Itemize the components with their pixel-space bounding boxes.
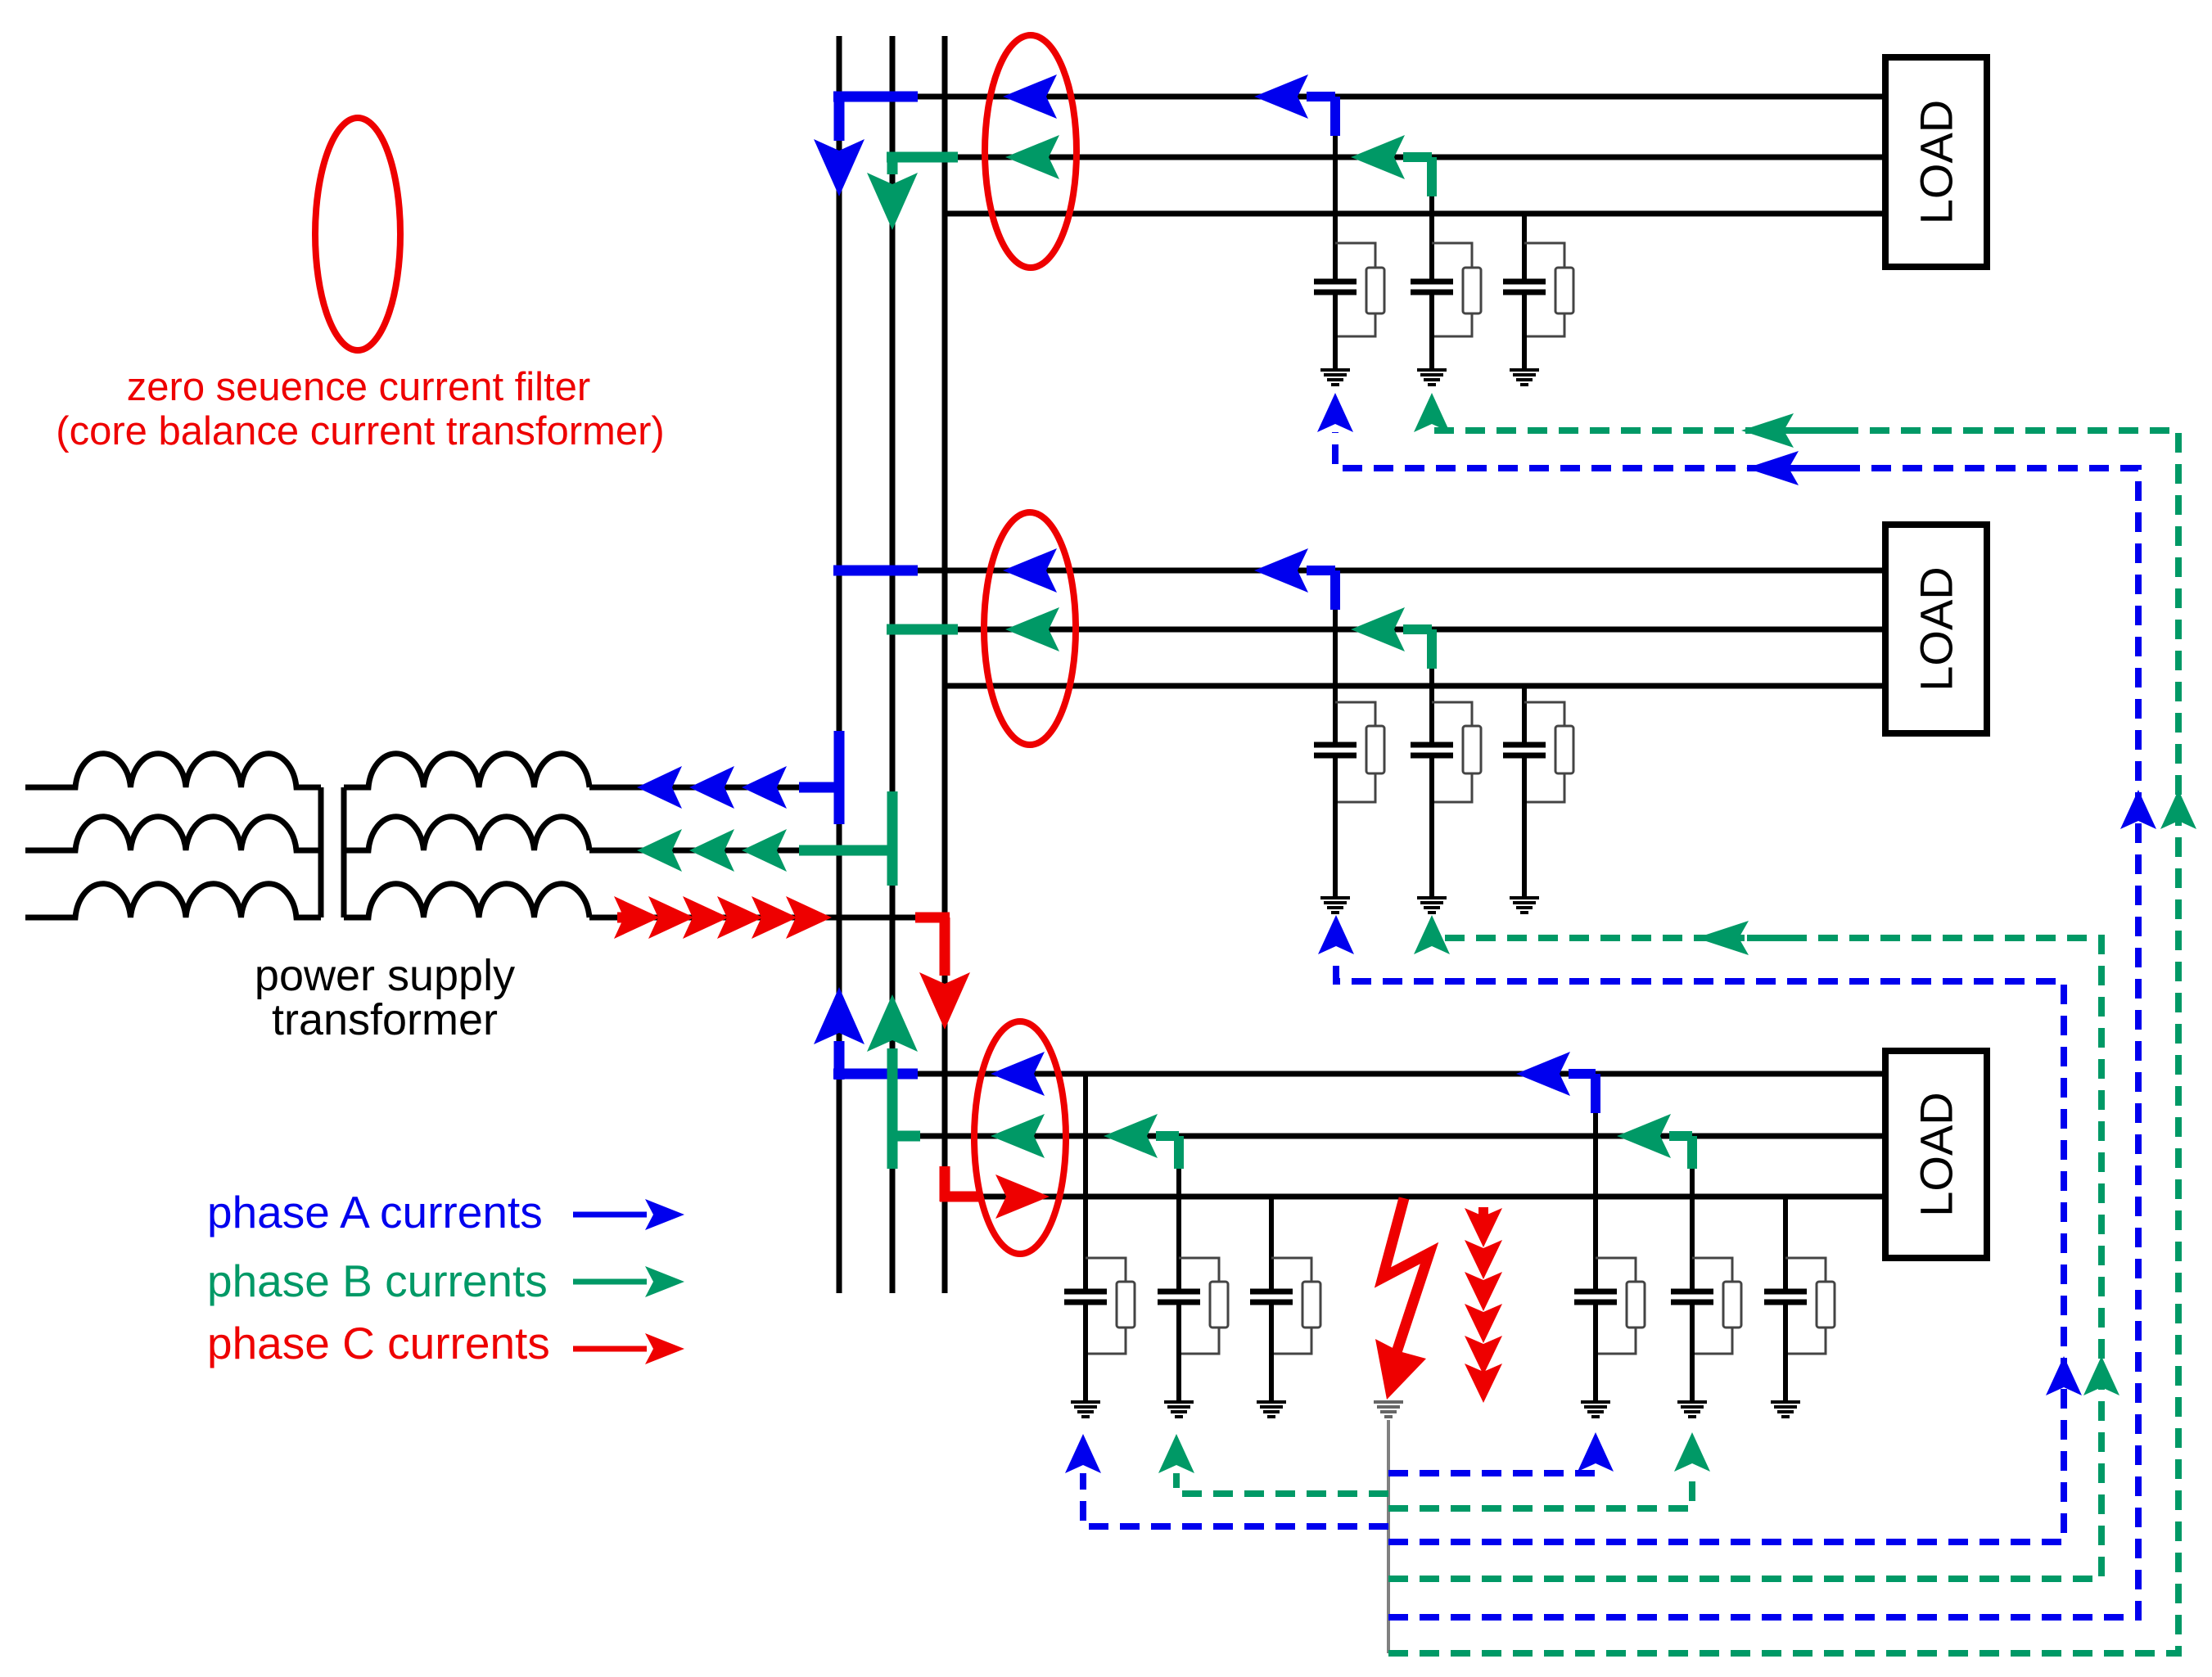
bus B (vertical busbar phase B): [890, 36, 896, 1293]
legend: phase A currents: [207, 1187, 647, 1237]
feeder 3 phase B line: [892, 1134, 1885, 1139]
capacitor C6 feeder2 phase C: [1503, 745, 1546, 755]
fault lightning bolt to ground: [1375, 1198, 1429, 1400]
wire C7 feeder3 phase A capacitor to ground: [1083, 1305, 1088, 1402]
wire C11 feeder3 phase B capacitor to ground: [1690, 1305, 1695, 1402]
zero sequence current filter CT2 (feeder 2): [984, 512, 1076, 745]
phase A current arrow up bus A from feeder 3: [814, 987, 918, 1080]
capacitor-resistor branch C10 feeder3 phase A: wire from phase line: [1593, 1074, 1598, 1289]
legend: phase B currents: [207, 1255, 647, 1306]
phase B dashed return to feeder 1 branch C2 ground: [1388, 393, 2196, 1653]
ground of C3 feeder1 phase C: [1510, 370, 1539, 385]
capacitor C8 feeder3 phase B: [1158, 1292, 1200, 1302]
legend: phase C currents: [207, 1318, 647, 1368]
ground of C7 feeder3 phase A: [1071, 1402, 1100, 1417]
phase B current arrowhead inside CT3: [991, 1114, 1045, 1158]
ground of C9 feeder3 phase C: [1257, 1402, 1286, 1417]
ground of C1 feeder1 phase A: [1320, 370, 1350, 385]
zero sequence current filter CT3 (feeder 3): [974, 1021, 1066, 1254]
phase A dashed return to feeder 3 branch C7 ground: [1065, 1434, 1388, 1526]
resistor C7 feeder3 phase A (parallel): [1086, 1258, 1135, 1354]
power supply transformer secondary winding: [344, 754, 589, 917]
wire C9 feeder3 phase C capacitor to ground: [1269, 1305, 1274, 1402]
wire C3 feeder1 phase C capacitor to ground: [1522, 295, 1527, 370]
wire C6 feeder2 phase C capacitor to ground: [1522, 758, 1527, 898]
capacitor C7 feeder3 phase A: [1064, 1292, 1107, 1302]
capacitor-resistor branch C12 feeder3 phase C: wire from phase line: [1783, 1197, 1788, 1289]
resistor C2 feeder1 phase B (parallel): [1432, 243, 1481, 336]
resistor C9 feeder3 phase C (parallel): [1271, 1258, 1320, 1354]
capacitor-resistor branch C4 feeder2 phase A: wire from phase line: [1333, 570, 1338, 742]
gray earth return wire from fault ground: [1387, 1420, 1390, 1653]
capacitor C11 feeder3 phase B: [1671, 1292, 1713, 1302]
wire C8 feeder3 phase B capacitor to ground: [1176, 1305, 1181, 1402]
phase B current arrows into transformer: [637, 791, 896, 886]
ground of C4 feeder2 phase A: [1320, 898, 1350, 913]
capacitor-resistor branch C3 feeder1 phase C: wire from phase line: [1522, 214, 1527, 279]
capacitor C9 feeder3 phase C: [1250, 1292, 1293, 1302]
phase B current arrow: feeder 1 tap into bus B: [867, 157, 958, 230]
capacitor C4 feeder2 phase A: [1314, 745, 1357, 755]
phase A current arrowhead inside CT1: [1003, 74, 1057, 119]
ground of C5 feeder2 phase B: [1417, 898, 1447, 913]
wire transformer secondary phase A to bus A: [589, 785, 839, 791]
bus C (vertical busbar phase C): [942, 36, 948, 1293]
phase A current arrowhead inside CT3: [991, 1052, 1045, 1096]
phase A current arrows into transformer: [637, 731, 844, 824]
svg-text:LOAD: LOAD: [1911, 1092, 1962, 1217]
ground of C10 feeder3 phase A: [1581, 1402, 1610, 1417]
phase B current arrow up bus B from feeder 3: [867, 994, 920, 1169]
resistor C10 feeder3 phase A (parallel): [1596, 1258, 1645, 1354]
ground at fault point: [1374, 1402, 1403, 1417]
phase B dashed return to feeder 2 branch C5 ground: [1388, 915, 2119, 1579]
zero sequence current filter CT1 (feeder 1): [985, 35, 1077, 268]
load box LOAD1 (feeder 1): [1885, 57, 1987, 267]
feeder 1 phase A line: [839, 94, 1885, 100]
phase B current arrowhead inside CT2: [1005, 607, 1059, 651]
svg-text:phase B currents: phase B currents: [207, 1255, 548, 1306]
capacitor C1 feeder1 phase A: [1314, 282, 1357, 292]
ground of C6 feeder2 phase C: [1510, 898, 1539, 913]
resistor C5 feeder2 phase B (parallel): [1432, 702, 1481, 802]
ground of C12 feeder3 phase C: [1771, 1402, 1800, 1417]
feeder 2 phase C line: [945, 683, 1885, 689]
zero sequence current filter symbol (legend): [315, 118, 400, 350]
svg-text:LOAD: LOAD: [1911, 100, 1962, 225]
feeder 1 phase C line: [945, 211, 1885, 217]
capacitor C12 feeder3 phase C: [1764, 1292, 1807, 1302]
phase A dashed return to feeder 2 branch C4 ground: [1318, 915, 2082, 1542]
phase B current arrow at branch C11: [1617, 1114, 1692, 1169]
load box LOAD2 (feeder 2): [1885, 525, 1987, 733]
resistor C8 feeder3 phase B (parallel): [1179, 1258, 1228, 1354]
svg-text:zero seuence current filter: zero seuence current filter: [127, 365, 591, 409]
feeder 1 phase B line: [892, 155, 1885, 160]
phase C fault current arrow into feeder 3: [940, 1166, 1050, 1219]
phase A current arrow at branch C1: [1254, 74, 1335, 136]
phase B current arrowhead inside CT1: [1005, 135, 1059, 179]
phase C fault current corner from transformer into bus C: [915, 917, 970, 1030]
phase C fault current arrows out of transformer: [614, 896, 832, 939]
capacitor C5 feeder2 phase B: [1411, 745, 1453, 755]
resistor C1 feeder1 phase A (parallel): [1335, 243, 1384, 336]
phase A current arrow at branch C4: [1254, 548, 1335, 610]
wire transformer secondary phase C to bus C: [589, 915, 950, 921]
phase B current arrow: feeder 2 tap into bus B: [887, 624, 958, 635]
phase A dashed return to feeder 3 branch C10 ground: [1388, 1432, 1614, 1473]
capacitor C10 feeder3 phase A: [1574, 1292, 1617, 1302]
capacitor-resistor branch C8 feeder3 phase B: wire from phase line: [1176, 1136, 1181, 1289]
resistor C6 feeder2 phase C (parallel): [1524, 702, 1573, 802]
svg-text:power supply: power supply: [255, 951, 515, 1000]
capacitor-resistor branch C2 feeder1 phase B: wire from phase line: [1429, 157, 1434, 279]
bus A (vertical busbar phase A): [837, 36, 842, 1293]
phase C fault current stacked arrows at fault: [1465, 1207, 1502, 1403]
svg-text:LOAD: LOAD: [1911, 566, 1962, 692]
svg-text:(core balance current transfor: (core balance current transformer): [56, 409, 664, 453]
phase A current arrowhead inside CT2: [1003, 548, 1057, 593]
ground of C8 feeder3 phase B: [1164, 1402, 1194, 1417]
phase A current arrow: feeder 2 tap into bus A: [833, 566, 918, 576]
feeder 2 phase B line: [892, 627, 1885, 633]
wire C2 feeder1 phase B capacitor to ground: [1429, 295, 1434, 370]
resistor C12 feeder3 phase C (parallel): [1785, 1258, 1835, 1354]
capacitor-resistor branch C5 feeder2 phase B: wire from phase line: [1429, 629, 1434, 742]
feeder 2 phase A line: [839, 568, 1885, 574]
svg-text:phase A currents: phase A currents: [207, 1187, 543, 1237]
phase B dashed return to feeder 3 branch C11 ground: [1388, 1432, 1710, 1508]
phase B dashed return to feeder 3 branch C8 ground: [1158, 1434, 1388, 1494]
feeder 3 phase C line: [945, 1194, 1885, 1200]
phase B current arrow at branch C5: [1351, 607, 1432, 669]
resistor C4 feeder2 phase A (parallel): [1335, 702, 1384, 802]
capacitor C3 feeder1 phase C: [1503, 282, 1546, 292]
load box LOAD3 (feeder 3): [1885, 1051, 1987, 1258]
power supply transformer primary winding: [25, 754, 321, 917]
wire C1 feeder1 phase A capacitor to ground: [1333, 295, 1338, 370]
phase B current arrow at branch C2: [1351, 135, 1432, 196]
phase A current arrow: feeder 1 tap into bus A: [814, 92, 918, 196]
capacitor-resistor branch C9 feeder3 phase C: wire from phase line: [1269, 1197, 1274, 1289]
capacitor-resistor branch C6 feeder2 phase C: wire from phase line: [1522, 686, 1527, 742]
wire C10 feeder3 phase A capacitor to ground: [1593, 1305, 1598, 1402]
wire C4 feeder2 phase A capacitor to ground: [1333, 758, 1338, 898]
capacitor-resistor branch C1 feeder1 phase A: wire from phase line: [1333, 97, 1338, 279]
svg-text:transformer: transformer: [272, 995, 498, 1044]
capacitor-resistor branch C7 feeder3 phase A: wire from phase line: [1083, 1074, 1088, 1289]
wire transformer secondary phase B to bus B: [589, 848, 892, 854]
resistor C11 feeder3 phase B (parallel): [1692, 1258, 1741, 1354]
feeder 3 phase A line: [839, 1071, 1885, 1077]
ground of C2 feeder1 phase B: [1417, 370, 1447, 385]
phase B current arrow at branch C8: [1104, 1114, 1179, 1169]
capacitor C2 feeder1 phase B: [1411, 282, 1453, 292]
svg-text:phase C currents: phase C currents: [207, 1318, 550, 1368]
wire C12 feeder3 phase C capacitor to ground: [1783, 1305, 1788, 1402]
phase A dashed return to feeder 1 branch C1 ground: [1317, 393, 2156, 1617]
wire C5 feeder2 phase B capacitor to ground: [1429, 758, 1434, 898]
ground of C11 feeder3 phase B: [1677, 1402, 1707, 1417]
capacitor-resistor branch C11 feeder3 phase B: wire from phase line: [1690, 1136, 1695, 1289]
phase A current arrow at branch C10: [1516, 1052, 1596, 1113]
resistor C3 feeder1 phase C (parallel): [1524, 243, 1573, 336]
